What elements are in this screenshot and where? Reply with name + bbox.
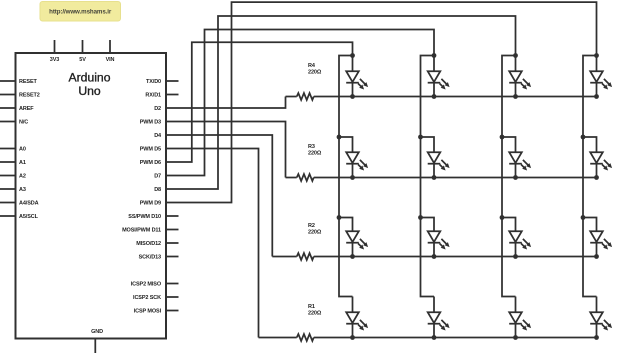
- pin A5/SCL: [0, 215, 16, 217]
- wire column 4 bus: [583, 56, 597, 297]
- node column 2 row 2 tap: [421, 137, 435, 152]
- svg-text:220Ω: 220Ω: [308, 70, 322, 76]
- pin ICSP MOSI: [166, 310, 179, 312]
- wire column 2 bus: [421, 56, 435, 297]
- wire PWM D9 to column 4 top: [166, 2, 597, 202]
- LED D2 (row 1, col 2): [428, 71, 450, 96]
- svg-text:RESET2: RESET2: [19, 93, 40, 99]
- pin RX/D1: [166, 94, 179, 96]
- svg-text:SS/PWM D10: SS/PWM D10: [128, 214, 161, 220]
- node column 1 row 4 tap: [352, 297, 354, 313]
- pin MISO/D12: [166, 242, 179, 244]
- LED D4 (row 1, col 4): [590, 71, 612, 96]
- node row 2 col 3 junction: [513, 175, 518, 180]
- node column 4 row 4 tap: [596, 297, 598, 313]
- pin VIN (top): [109, 40, 111, 53]
- svg-text:PWM D6: PWM D6: [140, 160, 161, 166]
- wire row 2 line: [314, 177, 597, 179]
- svg-text:PWM D3: PWM D3: [140, 120, 161, 126]
- svg-text:A2: A2: [19, 174, 26, 180]
- wire D4 to R2 row3: [166, 135, 272, 257]
- svg-text:MOSI/PWM D11: MOSI/PWM D11: [122, 228, 161, 234]
- pin GND (bottom): [94, 339, 96, 353]
- pin A4/SDA: [0, 202, 16, 204]
- node row 1 col 2 junction: [432, 94, 437, 99]
- node column 1 row 1 tap: [352, 56, 354, 72]
- svg-text:PWM D9: PWM D9: [140, 201, 161, 207]
- wire column 1 bus: [339, 56, 353, 297]
- LED D8 (row 2, col 4): [590, 152, 612, 177]
- wire row 3 left lead: [272, 256, 296, 258]
- pin RESET: [0, 80, 16, 82]
- node row 3 col 1 junction: [350, 254, 355, 259]
- svg-text:R4: R4: [308, 63, 316, 69]
- pin MOSI/PWM D11: [166, 229, 179, 231]
- node row 2 col 2 junction: [432, 175, 437, 180]
- LED D10 (row 3, col 2): [428, 231, 450, 256]
- svg-text:A3: A3: [19, 187, 26, 193]
- pin ICSP2 SCK: [166, 296, 179, 298]
- LED D11 (row 3, col 3): [509, 231, 531, 256]
- svg-text:R3: R3: [308, 144, 315, 150]
- svg-text:3V3: 3V3: [50, 57, 59, 63]
- node column 1 row 3 tap: [339, 218, 353, 232]
- svg-text:220Ω: 220Ω: [308, 151, 322, 157]
- svg-text:RX/D1: RX/D1: [145, 93, 161, 99]
- wire D7 to column 2 top: [166, 30, 434, 176]
- svg-text:Uno: Uno: [78, 84, 101, 98]
- pin A0: [0, 148, 16, 150]
- Arduino U1 body: [16, 53, 167, 339]
- svg-text:MISO/D12: MISO/D12: [136, 241, 161, 247]
- wire D2 to R4 row1: [166, 97, 286, 109]
- wire row 2 left lead: [286, 177, 297, 179]
- node row 2 col 1 junction: [350, 175, 355, 180]
- LED D5 (row 2, col 1): [346, 152, 368, 177]
- node column 3 row 4 tap: [515, 297, 517, 313]
- resistor R1 220 ohm: [297, 334, 314, 341]
- pin TX/D0: [166, 80, 179, 82]
- svg-text:A4/SDA: A4/SDA: [19, 201, 39, 207]
- LED D15 (row 4, col 3): [509, 312, 531, 337]
- LED D1 (row 1, col 1): [346, 71, 368, 96]
- node row 4 col 1 junction: [350, 335, 355, 340]
- node row 2 col 4 junction: [594, 175, 599, 180]
- LED D16 (row 4, col 4): [590, 312, 612, 337]
- pin SCK/D13: [166, 256, 179, 258]
- svg-text:D4: D4: [154, 133, 162, 139]
- wire row 1 left lead: [286, 96, 297, 98]
- pin A2: [0, 175, 16, 177]
- node column 4 row 3 tap: [583, 218, 597, 232]
- wire PWM D3 to R3 row2: [166, 122, 286, 178]
- node row 3 col 3 junction: [513, 254, 518, 259]
- svg-text:http://www.mshams.ir: http://www.mshams.ir: [49, 9, 112, 16]
- svg-text:ICSP MOSI: ICSP MOSI: [134, 309, 162, 315]
- svg-text:220Ω: 220Ω: [308, 230, 322, 236]
- node row 1 col 1 junction: [350, 94, 355, 99]
- wire row 4 line: [314, 337, 597, 339]
- svg-text:TX/D0: TX/D0: [146, 79, 161, 85]
- pin A1: [0, 161, 16, 163]
- node row 1 col 4 junction: [594, 94, 599, 99]
- node column 3 row 1 tap: [515, 56, 517, 72]
- pin ICSP2 MISO: [166, 283, 179, 285]
- node column 1 row 2 tap: [339, 137, 353, 152]
- node row 4 col 4 junction: [594, 335, 599, 340]
- svg-text:D7: D7: [154, 174, 161, 180]
- LED D13 (row 4, col 1): [346, 312, 368, 337]
- resistor R4 220 ohm: [297, 93, 314, 100]
- svg-text:SCK/D13: SCK/D13: [139, 255, 161, 261]
- node column 4 row 1 tap: [596, 56, 598, 72]
- node row 4 col 2 junction: [432, 335, 437, 340]
- svg-text:R2: R2: [308, 223, 315, 229]
- svg-text:N/C: N/C: [19, 120, 28, 126]
- svg-text:RESET: RESET: [19, 79, 37, 85]
- node column 2 row 1 tap: [433, 56, 435, 72]
- svg-text:A1: A1: [19, 160, 26, 166]
- node column 3 row 2 tap: [502, 137, 516, 152]
- wire row 3 line: [314, 256, 597, 258]
- pin AREF: [0, 107, 16, 109]
- pin A3: [0, 188, 16, 190]
- svg-text:R1: R1: [308, 304, 315, 310]
- resistor R3 220 ohm: [297, 174, 314, 181]
- node row 3 col 4 junction: [594, 254, 599, 259]
- node column 2 row 3 tap: [421, 218, 435, 232]
- wire row 1 line: [314, 96, 597, 98]
- node column 4 row 2 tap: [583, 137, 597, 152]
- LED D6 (row 2, col 2): [428, 152, 450, 177]
- LED D12 (row 3, col 4): [590, 231, 612, 256]
- pin 3V3 (top): [54, 40, 56, 53]
- svg-text:PWM D5: PWM D5: [140, 147, 161, 153]
- pin SS/PWM D10: [166, 215, 179, 217]
- svg-text:5V: 5V: [79, 57, 86, 63]
- pin RESET2: [0, 94, 16, 96]
- node row 4 col 3 junction: [513, 335, 518, 340]
- svg-text:VIN: VIN: [106, 57, 115, 63]
- LED D14 (row 4, col 2): [428, 312, 450, 337]
- svg-text:ICSP2 SCK: ICSP2 SCK: [133, 295, 161, 301]
- svg-text:ICSP2 MISO: ICSP2 MISO: [131, 282, 162, 288]
- wire column 3 bus: [502, 56, 516, 297]
- yellow url banner: [40, 2, 121, 22]
- svg-text:Arduino: Arduino: [68, 71, 110, 85]
- node column 2 row 4 tap: [433, 297, 435, 313]
- resistor R2 220 ohm: [297, 253, 314, 260]
- wire PWM D6 to column 1 top: [166, 42, 353, 162]
- node row 3 col 2 junction: [432, 254, 437, 259]
- pin 5V (top): [82, 40, 84, 53]
- pin N/C: [0, 121, 16, 123]
- svg-text:A5/SCL: A5/SCL: [19, 214, 39, 220]
- LED D9 (row 3, col 1): [346, 231, 368, 256]
- node column 3 row 3 tap: [502, 218, 516, 232]
- svg-text:AREF: AREF: [19, 106, 34, 112]
- svg-text:D2: D2: [154, 106, 161, 112]
- svg-text:GND: GND: [91, 329, 103, 335]
- LED D7 (row 2, col 3): [509, 152, 531, 177]
- wire row 4 left lead: [259, 337, 297, 339]
- node row 1 col 3 junction: [513, 94, 518, 99]
- wire D8 to column 3 top: [166, 16, 516, 189]
- svg-text:D8: D8: [154, 187, 161, 193]
- wire PWM D5 to R1 row4: [166, 149, 259, 338]
- svg-text:220Ω: 220Ω: [308, 311, 322, 317]
- LED D3 (row 1, col 3): [509, 71, 531, 96]
- svg-text:A0: A0: [19, 147, 26, 153]
